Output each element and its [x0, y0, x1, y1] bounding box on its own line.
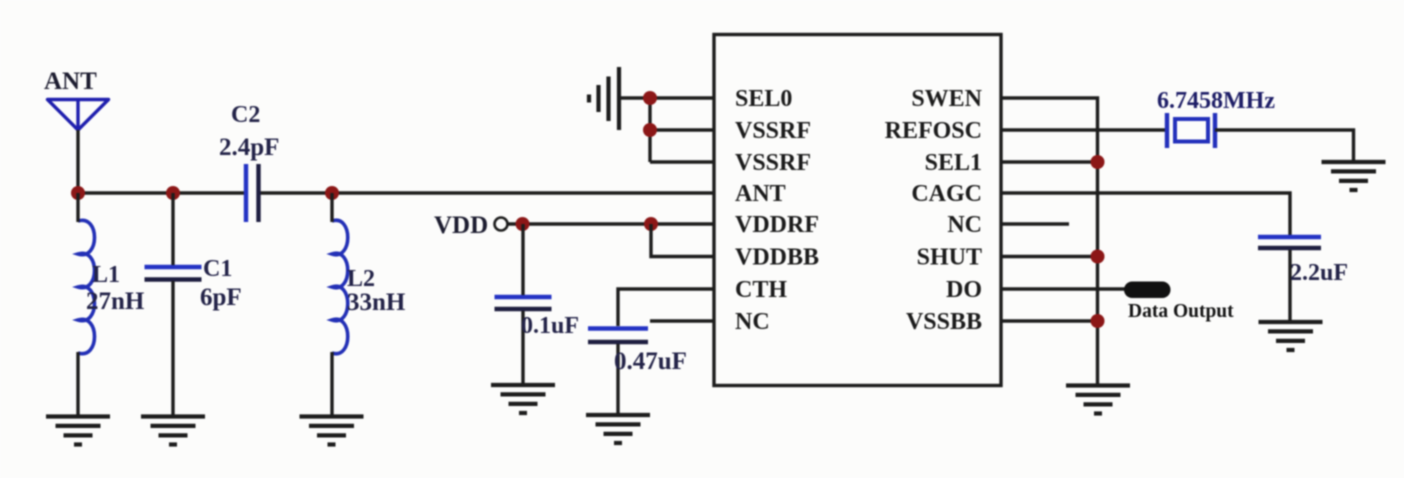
capacitor C1	[145, 267, 202, 280]
antenna ANT	[48, 100, 109, 131]
wire CAGC to 2.2uF	[1001, 193, 1290, 235]
terminal VDD circle	[495, 218, 508, 231]
svg-text:L1: L1	[92, 262, 120, 288]
wire 0.47uF bottom lead	[616, 344, 619, 414]
svg-text:6pF: 6pF	[200, 284, 242, 311]
svg-text:VSSRF: VSSRF	[735, 118, 811, 144]
wire crystal to ground	[1215, 130, 1354, 161]
wire SEL1 to bus	[1001, 160, 1098, 163]
IC U1 body	[714, 35, 1001, 386]
ground for 0.47uF	[586, 415, 650, 443]
svg-text:NC: NC	[735, 309, 770, 335]
wire main node row right of C2	[261, 191, 715, 194]
node SEL0 junction	[643, 91, 657, 105]
node VDD junction	[516, 217, 530, 231]
wire C1 bottom lead	[171, 281, 174, 415]
svg-text:VDDBB: VDDBB	[735, 245, 819, 271]
inductor L1	[78, 220, 95, 353]
wire VDD to IC	[508, 222, 715, 225]
ground for L1	[46, 417, 110, 445]
wire 0.1uF top lead	[521, 224, 524, 295]
svg-text:ANT: ANT	[44, 68, 97, 95]
terminal Data Output pill	[1124, 282, 1171, 299]
node SEL1 junction	[1091, 155, 1105, 169]
ground for L2	[300, 417, 364, 445]
svg-text:SEL1: SEL1	[925, 150, 982, 176]
svg-text:33nH: 33nH	[347, 289, 406, 316]
svg-text:VSSBB: VSSBB	[906, 309, 982, 335]
capacitor 0.1uF	[495, 297, 552, 309]
node VSSBB junction	[1091, 314, 1105, 328]
svg-text:VSSRF: VSSRF	[735, 150, 811, 176]
wire SHUT to bus	[1001, 255, 1098, 258]
wire SWEN to bus	[1001, 98, 1098, 384]
capacitor 2.2uF	[1258, 237, 1321, 248]
svg-text:REFOSC: REFOSC	[885, 118, 982, 144]
svg-text:Data Output: Data Output	[1128, 301, 1234, 322]
wire SEL0 to sideways ground	[621, 96, 714, 99]
wire VSSBB to bus	[1001, 319, 1098, 322]
ground sideways at SEL0	[589, 67, 619, 130]
node C1 junction	[166, 186, 180, 200]
svg-text:2.2uF: 2.2uF	[1290, 260, 1348, 286]
crystal Y1 6.7458MHz	[1167, 113, 1215, 148]
svg-text:0.1uF: 0.1uF	[521, 313, 579, 339]
svg-text:C2: C2	[231, 102, 260, 128]
node VDDBB junction	[644, 217, 658, 231]
svg-text:VDD: VDD	[434, 212, 488, 239]
wire VSSRF2 to IC	[650, 160, 714, 163]
wire antenna down	[76, 130, 79, 193]
wire VSS bus vertical	[648, 98, 651, 162]
svg-text:C1: C1	[203, 256, 232, 282]
wire L1 top lead	[76, 193, 79, 222]
ground for 0.1uF	[491, 385, 555, 413]
wire VDDBB drop	[651, 224, 714, 257]
wire NC right stub	[1001, 222, 1069, 225]
node L2 junction	[325, 186, 339, 200]
ground for bus	[1066, 386, 1130, 414]
svg-text:SWEN: SWEN	[911, 86, 982, 112]
wire 0.1uF bottom lead	[521, 311, 524, 384]
svg-text:SHUT: SHUT	[917, 245, 982, 271]
svg-text:DO: DO	[946, 277, 982, 303]
svg-text:NC: NC	[947, 212, 982, 238]
ground for C1	[141, 417, 205, 445]
node SHUT junction	[1091, 250, 1105, 264]
wire L2 top lead	[330, 193, 333, 222]
svg-text:CTH: CTH	[735, 277, 787, 303]
svg-text:2.4pF: 2.4pF	[219, 134, 279, 161]
svg-text:CAGC: CAGC	[911, 181, 982, 207]
node VSSRF junction	[643, 123, 657, 137]
ground for 2.2uF	[1259, 322, 1323, 350]
wire L2 bottom lead	[330, 352, 333, 415]
svg-text:27nH: 27nH	[86, 288, 145, 315]
wire L1 bottom lead	[76, 352, 79, 415]
wire NC left stub	[650, 319, 714, 322]
wire C1 top lead	[171, 193, 174, 265]
svg-text:ANT: ANT	[735, 181, 786, 207]
wire VSSRF1 to IC	[650, 128, 714, 131]
node ANT junction	[71, 186, 85, 200]
svg-text:6.7458MHz: 6.7458MHz	[1157, 88, 1275, 114]
svg-text:SEL0: SEL0	[735, 86, 792, 112]
svg-text:0.47uF: 0.47uF	[614, 348, 687, 375]
svg-text:VDDRF: VDDRF	[735, 212, 819, 238]
inductor L2	[332, 220, 348, 353]
ground for crystal	[1322, 162, 1386, 190]
wire 2.2uF bottom lead	[1288, 250, 1291, 321]
wire DO to data output	[1001, 287, 1128, 290]
wire main node row left	[78, 191, 245, 194]
wire REFOSC to crystal	[1001, 128, 1167, 131]
capacitor 0.47uF	[588, 329, 648, 343]
wire CTH to IC	[618, 289, 714, 326]
capacitor C2	[246, 164, 259, 222]
